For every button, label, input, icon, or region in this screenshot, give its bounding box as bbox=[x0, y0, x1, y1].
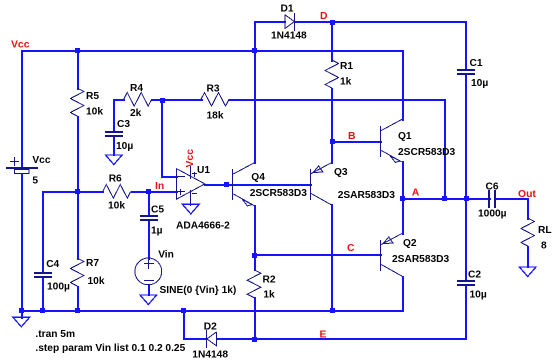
svg-text:2SAR583D3: 2SAR583D3 bbox=[392, 254, 450, 265]
wire bbox=[331, 21, 333, 62]
wire bbox=[254, 297, 256, 340]
svg-text:Out: Out bbox=[518, 189, 536, 200]
resistor RL bbox=[521, 218, 552, 252]
svg-text:Q1: Q1 bbox=[398, 131, 412, 142]
wire bbox=[148, 220, 150, 260]
svg-text:U1: U1 bbox=[197, 165, 210, 176]
wire bbox=[254, 21, 286, 23]
transistor Q3 bbox=[310, 163, 395, 206]
svg-text:10µ: 10µ bbox=[471, 78, 488, 89]
node A junction bbox=[400, 196, 405, 201]
svg-text:1N4148: 1N4148 bbox=[192, 349, 228, 360]
capacitor C3 bbox=[105, 119, 133, 152]
resistor R3 bbox=[201, 83, 229, 121]
wire bbox=[402, 276, 404, 312]
resistor R7 bbox=[70, 258, 104, 287]
svg-text:1µ: 1µ bbox=[151, 226, 163, 237]
resistor R1 bbox=[325, 60, 353, 88]
svg-text:Q3: Q3 bbox=[334, 167, 348, 178]
svg-text:10k: 10k bbox=[108, 201, 125, 212]
svg-text:R2: R2 bbox=[263, 275, 276, 286]
ground bbox=[13, 317, 30, 327]
ground bbox=[519, 267, 536, 277]
wire bbox=[77, 286, 79, 312]
svg-text:D2: D2 bbox=[204, 322, 217, 333]
transistor Q2 bbox=[380, 234, 450, 277]
resistor R4 bbox=[124, 83, 152, 119]
svg-text:C2: C2 bbox=[468, 270, 481, 281]
svg-text:E: E bbox=[320, 330, 327, 341]
wire bbox=[444, 99, 446, 200]
transistor Q4 bbox=[232, 163, 307, 206]
junction R5 / R6 / R7 bbox=[75, 189, 80, 194]
wire bbox=[21, 310, 404, 312]
node D junction bbox=[330, 20, 335, 25]
resistor R2 bbox=[247, 270, 276, 301]
wire bbox=[465, 21, 467, 71]
svg-text:8: 8 bbox=[541, 241, 547, 252]
svg-text:5: 5 bbox=[32, 175, 38, 186]
svg-text:Vcc: Vcc bbox=[11, 40, 30, 51]
junction U1 output / Q4 base bbox=[224, 182, 229, 187]
capacitor C5 bbox=[140, 205, 164, 237]
op-amp U1 bbox=[176, 165, 230, 232]
svg-text:.tran 5m: .tran 5m bbox=[35, 329, 75, 340]
wire bbox=[216, 338, 467, 340]
wire bbox=[148, 191, 150, 217]
svg-text:R5: R5 bbox=[86, 91, 99, 102]
svg-text:D: D bbox=[320, 11, 328, 22]
wire bbox=[113, 99, 125, 101]
wire bbox=[527, 198, 529, 220]
svg-text:R6: R6 bbox=[109, 174, 122, 185]
svg-text:R7: R7 bbox=[86, 258, 99, 269]
wire bbox=[229, 99, 446, 101]
svg-text:10µ: 10µ bbox=[470, 290, 487, 301]
svg-text:Vcc: Vcc bbox=[185, 149, 196, 168]
svg-text:Vin: Vin bbox=[158, 250, 174, 261]
svg-text:C6: C6 bbox=[486, 182, 499, 193]
capacitor C1 bbox=[457, 58, 488, 89]
wire bbox=[21, 50, 404, 52]
svg-text:18k: 18k bbox=[207, 111, 224, 122]
capacitor C4 bbox=[34, 259, 70, 293]
svg-text:10µ: 10µ bbox=[116, 141, 133, 152]
wire bbox=[465, 73, 467, 200]
voltage source V1 battery Vcc bbox=[6, 155, 51, 186]
svg-text:SINE(0 {Vin} 1k): SINE(0 {Vin} 1k) bbox=[160, 285, 237, 296]
svg-text:1k: 1k bbox=[263, 290, 275, 301]
transistor Q1 bbox=[380, 119, 456, 162]
svg-text:R4: R4 bbox=[130, 83, 143, 94]
wire bbox=[465, 198, 467, 282]
svg-text:Q2: Q2 bbox=[403, 238, 417, 249]
wire bbox=[183, 338, 208, 340]
svg-text:C4: C4 bbox=[46, 259, 59, 270]
junction node A / C1 / C2 bbox=[464, 196, 469, 201]
wire bbox=[42, 191, 44, 274]
svg-text:Vcc: Vcc bbox=[32, 155, 50, 166]
ground bbox=[140, 295, 157, 305]
resistor R5 bbox=[70, 88, 103, 118]
node C junction bbox=[252, 253, 257, 258]
svg-text:1000µ: 1000µ bbox=[478, 209, 507, 220]
wire bbox=[527, 246, 529, 268]
wire bbox=[77, 116, 79, 193]
wire bbox=[465, 284, 467, 340]
svg-text:C3: C3 bbox=[117, 119, 130, 130]
junction Vcc rail / Q4 collector branch bbox=[252, 48, 257, 53]
wire bbox=[113, 136, 115, 156]
wire bbox=[254, 254, 382, 256]
node B junction bbox=[330, 139, 335, 144]
wire bbox=[331, 141, 333, 164]
wire bbox=[254, 254, 256, 271]
svg-text:C5: C5 bbox=[151, 205, 164, 216]
junction R7 / ground rail bbox=[75, 308, 80, 313]
resistor R6 bbox=[103, 174, 131, 212]
svg-text:2SAR583D3: 2SAR583D3 bbox=[338, 190, 396, 201]
ground bbox=[182, 204, 199, 214]
wire bbox=[402, 161, 404, 235]
wire bbox=[151, 99, 203, 101]
svg-text:R1: R1 bbox=[340, 61, 353, 72]
capacitor C6 bbox=[478, 182, 507, 220]
wire bbox=[77, 191, 79, 260]
wire bbox=[254, 50, 256, 164]
wire bbox=[77, 50, 79, 90]
junction node A / R3 branch bbox=[442, 196, 447, 201]
wire bbox=[331, 141, 382, 143]
ground bbox=[105, 155, 122, 165]
wire bbox=[148, 284, 150, 296]
junction Q3 collector / ground rail bbox=[330, 308, 335, 313]
wire bbox=[42, 276, 44, 312]
svg-text:1N4148: 1N4148 bbox=[271, 30, 307, 41]
diode D2 bbox=[192, 322, 228, 361]
node In junction bbox=[146, 189, 151, 194]
junction Vcc rail / R5 bbox=[75, 48, 80, 53]
svg-text:1k: 1k bbox=[340, 77, 352, 88]
wire bbox=[331, 88, 333, 143]
svg-text:.step param Vin list 0.1 0.2 0: .step param Vin list 0.1 0.2 0.25 bbox=[35, 343, 185, 354]
svg-text:In: In bbox=[155, 181, 164, 192]
wire bbox=[402, 50, 404, 121]
wire bbox=[161, 176, 178, 178]
wire bbox=[21, 310, 23, 319]
svg-text:10k: 10k bbox=[86, 107, 103, 118]
wire bbox=[21, 50, 23, 169]
voltage source Vin bbox=[135, 250, 236, 297]
svg-text:B: B bbox=[348, 131, 356, 142]
wire bbox=[254, 205, 256, 256]
diode D1 bbox=[271, 3, 307, 41]
ground rail junction left bbox=[19, 308, 24, 313]
svg-text:A: A bbox=[412, 188, 420, 199]
wire bbox=[204, 184, 312, 186]
node E junction R2 / D2 bbox=[252, 337, 257, 342]
wire bbox=[494, 198, 529, 200]
wire bbox=[42, 191, 104, 193]
wire bbox=[161, 99, 163, 178]
svg-text:2SCR583D3: 2SCR583D3 bbox=[250, 188, 308, 199]
svg-text:C: C bbox=[347, 243, 355, 254]
svg-text:R3: R3 bbox=[207, 83, 220, 94]
svg-text:100µ: 100µ bbox=[47, 282, 70, 293]
svg-text:10k: 10k bbox=[88, 276, 105, 287]
svg-text:Q4: Q4 bbox=[251, 172, 265, 183]
wire bbox=[402, 50, 404, 121]
wire bbox=[402, 198, 491, 200]
svg-text:ADA4666-2: ADA4666-2 bbox=[176, 221, 230, 232]
svg-text:RL: RL bbox=[538, 225, 552, 236]
wire bbox=[183, 310, 185, 340]
wire bbox=[294, 21, 467, 23]
wire bbox=[131, 191, 178, 193]
capacitor C2 bbox=[457, 270, 487, 301]
svg-text:2k: 2k bbox=[130, 108, 142, 119]
svg-text:C1: C1 bbox=[470, 58, 483, 69]
wire bbox=[113, 99, 115, 133]
svg-text:2SCR583D3: 2SCR583D3 bbox=[398, 147, 456, 158]
wire bbox=[331, 204, 333, 312]
wire bbox=[254, 21, 256, 52]
junction D2 branch / ground rail bbox=[181, 308, 186, 313]
svg-text:D1: D1 bbox=[281, 3, 294, 14]
junction R4 / R3 / feedback bbox=[160, 98, 165, 103]
junction C4 / ground rail bbox=[40, 308, 45, 313]
wire bbox=[21, 173, 23, 312]
